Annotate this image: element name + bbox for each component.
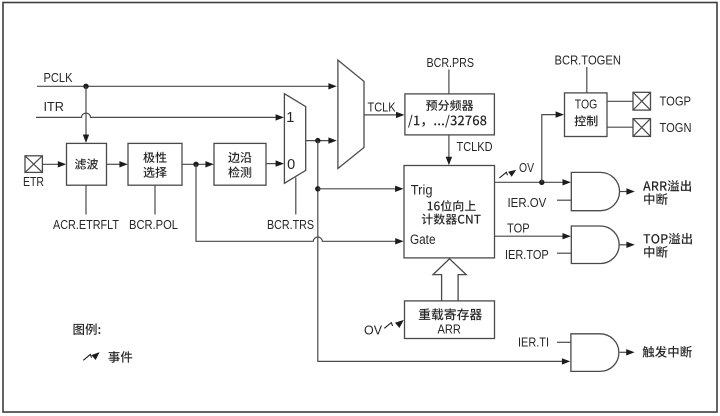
legend event symbol <box>83 354 91 360</box>
arrow TCLKD into counter <box>446 157 452 165</box>
text 边沿 <box>228 152 251 163</box>
text TOP溢出 <box>643 233 692 245</box>
arrow TCLK into prescaler <box>396 112 404 118</box>
mux M2 (clock select) <box>338 60 364 168</box>
junction PCLK tap <box>83 84 88 89</box>
wire ACR.ETRFLT <box>85 185 87 214</box>
and-gate U2 <box>571 226 619 264</box>
wire ETR to filter <box>42 163 58 165</box>
mux M1 (BCR.TRS select) <box>284 94 305 184</box>
arrow U1 output <box>626 188 634 194</box>
wire TOP <box>495 235 564 237</box>
svg-text:IER.OV: IER.OV <box>508 196 547 210</box>
box TOG control TOG控制 <box>565 93 608 137</box>
wire filter to polarity <box>107 163 121 165</box>
box prescaler 预分频器 <box>405 94 495 135</box>
wire U1 output <box>620 191 628 193</box>
arrow into TOG control <box>556 111 564 117</box>
wire U2 output <box>619 244 627 246</box>
svg-text:BCR.TOGEN: BCR.TOGEN <box>555 54 622 68</box>
svg-text:BCR.POL: BCR.POL <box>129 218 178 232</box>
wire TCLK <box>364 114 397 116</box>
wire edge detect to mux M1 input 0 <box>266 163 276 165</box>
and-gate U1 <box>571 172 619 210</box>
wire BCR.PRS <box>448 70 450 94</box>
svg-text:OV: OV <box>519 161 535 175</box>
wire IER.TI input <box>557 341 571 343</box>
text 极性 <box>143 152 166 163</box>
wire node B down and to trigger gate <box>318 141 563 362</box>
svg-text:ETR: ETR <box>23 175 44 189</box>
wire PCLK tap drop to filter <box>85 86 87 135</box>
svg-text:TCLKD: TCLKD <box>457 140 493 154</box>
svg-text:OV: OV <box>364 324 383 338</box>
svg-text:TOG: TOG <box>575 97 598 112</box>
wire BCR.TRS <box>295 178 297 215</box>
wire BCR.POL <box>154 185 156 214</box>
svg-text:TCLK: TCLK <box>368 101 397 115</box>
text 控制 <box>575 115 598 126</box>
event marker OV <box>499 172 507 178</box>
box filter 滤波 <box>67 143 107 185</box>
text 预分频器 <box>426 100 473 111</box>
box edge detect 边沿检测 <box>214 143 266 185</box>
svg-text:TOGP: TOGP <box>660 95 692 109</box>
wire TOGP <box>607 100 633 102</box>
text /1，.../32768 <box>408 115 486 128</box>
junction node A <box>193 162 198 167</box>
svg-text:TOGN: TOGN <box>660 121 692 135</box>
wire TCLKD <box>448 135 450 158</box>
arrow into edge detect <box>205 161 213 167</box>
wire node D to TOG control <box>542 115 557 183</box>
wire BCR.TOGEN <box>586 67 588 93</box>
wire PCLK <box>37 85 330 87</box>
arrow into trigger gate <box>562 358 570 364</box>
text ARR溢出 <box>643 180 691 192</box>
arrow OV into gate U1 <box>563 179 571 185</box>
text 中断 (TOP) <box>644 246 667 258</box>
wire U3 output <box>620 351 627 353</box>
svg-text:TOP: TOP <box>507 222 530 236</box>
svg-text:ITR: ITR <box>44 100 65 114</box>
arrow into polarity <box>119 161 127 167</box>
text 触发中断 <box>643 346 692 358</box>
box counter 16位向上计数器CNT <box>404 166 495 258</box>
arrow ITR into mux M1 input 1 <box>276 114 284 120</box>
junction node B <box>315 138 320 143</box>
wire OV <box>495 181 564 183</box>
big arrow ARR to counter <box>433 259 466 301</box>
svg-text:IER.TOP: IER.TOP <box>505 248 549 262</box>
wire node A to Gate input with hop <box>196 164 396 241</box>
text 计数器CNT <box>422 214 481 225</box>
pad TOGP <box>633 92 651 110</box>
wire node C to Trig <box>318 188 396 190</box>
arrow into Gate <box>395 238 403 244</box>
svg-text:1: 1 <box>286 110 294 126</box>
event arrow OV into ARR <box>384 323 392 329</box>
svg-text:ARR: ARR <box>438 322 461 337</box>
junction node C <box>315 186 320 191</box>
box polarity 极性选择 <box>128 143 182 185</box>
arrow into mux input 0 <box>276 160 284 166</box>
wire TOGN <box>607 126 633 128</box>
text 滤波 <box>75 159 98 170</box>
arrow U3 output <box>626 349 634 355</box>
arrow into filter top <box>83 135 89 143</box>
pad ETR <box>25 156 42 173</box>
svg-text:Trig: Trig <box>411 182 433 197</box>
pad TOGN <box>633 119 651 137</box>
text 选择 <box>144 167 167 178</box>
text 16位向上 <box>428 200 476 211</box>
legend title 图例: <box>74 323 101 335</box>
arrow TOP into gate U2 <box>563 233 571 239</box>
svg-text:PCLK: PCLK <box>44 71 74 85</box>
text 检测 <box>228 167 251 178</box>
arrow into Trig <box>395 186 403 192</box>
wire IER.TOP input <box>557 252 571 254</box>
text 重载寄存器 <box>419 308 482 320</box>
wire polarity to edge detect <box>182 163 206 165</box>
box reload register 重载寄存器ARR <box>405 301 495 339</box>
svg-text:0: 0 <box>287 157 295 173</box>
arrow into filter <box>58 161 66 167</box>
svg-text:BCR.TRS: BCR.TRS <box>267 218 314 232</box>
svg-text:ACR.ETRFLT: ACR.ETRFLT <box>53 218 119 232</box>
wire mux M1 out <box>306 140 329 142</box>
wire ITR with hop <box>36 113 276 117</box>
arrow U2 output <box>626 242 634 248</box>
svg-text:Gate: Gate <box>410 232 436 247</box>
svg-text:BCR.PRS: BCR.PRS <box>427 56 475 70</box>
and-gate U3 <box>571 334 619 372</box>
svg-text:IER.TI: IER.TI <box>518 336 549 350</box>
arrow PCLK into mux M2 <box>328 83 336 89</box>
arrow into mux M2 <box>328 137 336 143</box>
junction node D <box>539 180 544 185</box>
legend text 事件 <box>108 351 132 363</box>
text 中断 (ARR) <box>644 193 667 205</box>
wire IER.OV input <box>557 199 571 201</box>
